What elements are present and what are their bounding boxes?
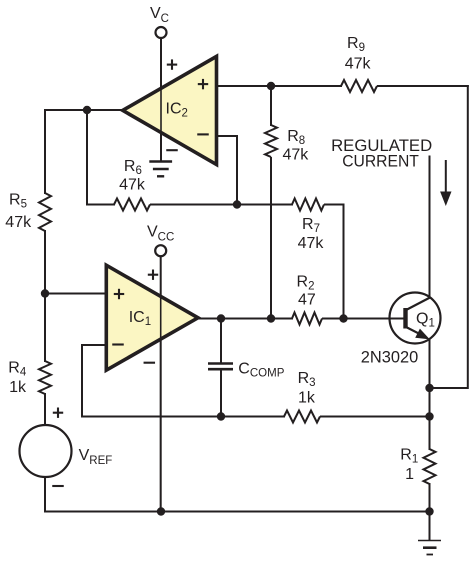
svg-text:2N3020: 2N3020 bbox=[361, 349, 419, 367]
svg-text:1k: 1k bbox=[298, 390, 316, 407]
svg-text:1k: 1k bbox=[9, 379, 27, 396]
svg-text:47: 47 bbox=[298, 292, 316, 309]
svg-text:47k: 47k bbox=[5, 214, 32, 231]
svg-text:CURRENT: CURRENT bbox=[342, 152, 419, 170]
svg-text:47k: 47k bbox=[283, 146, 310, 163]
svg-text:47k: 47k bbox=[119, 177, 146, 194]
svg-text:47k: 47k bbox=[345, 55, 372, 72]
svg-text:47k: 47k bbox=[298, 235, 325, 252]
svg-text:1: 1 bbox=[405, 466, 414, 483]
